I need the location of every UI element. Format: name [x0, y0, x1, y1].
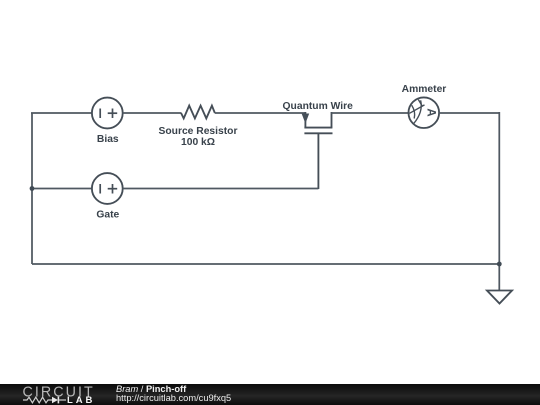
svg-text:Source Resistor: Source Resistor [159, 126, 238, 137]
footer bar [0, 384, 540, 405]
wire gate source branch [32, 188, 92, 190]
wire transistor drain to ammeter [332, 112, 409, 114]
wire right vertical bus [498, 112, 500, 264]
wire ground stem [498, 264, 500, 291]
svg-text:Ammeter: Ammeter [402, 84, 447, 95]
voltage source V1 Bias [92, 98, 123, 129]
svg-text:100 kΩ: 100 kΩ [181, 137, 215, 148]
svg-text:Gate: Gate [96, 209, 119, 220]
svg-text:Bias: Bias [97, 134, 119, 145]
ammeter AM1 [409, 97, 440, 128]
ground symbol [487, 291, 512, 304]
wire bottom bus [32, 263, 499, 265]
wire Gate source to transistor gate [123, 188, 319, 190]
logo wire with resistor [23, 397, 52, 403]
wire ammeter to right bus [439, 112, 499, 114]
transistor Q1 Quantum Wire (MESFET) [302, 112, 333, 189]
voltage source V2 Gate [92, 173, 123, 204]
svg-text:A: A [424, 108, 436, 116]
footer url [116, 393, 231, 403]
svg-text:Quantum Wire: Quantum Wire [283, 101, 354, 112]
node junction left bus / gate branch [30, 186, 35, 191]
resistor R1 Source Resistor 100k [181, 106, 215, 119]
logo diode [52, 397, 58, 403]
footer title Bram / Pinch-off [116, 384, 186, 394]
node junction right bus / bottom bus [497, 262, 502, 267]
wire left vertical bus [31, 113, 33, 264]
wire resistor to transistor [215, 112, 306, 114]
wire Bias to resistor [123, 112, 182, 114]
wire top-left horizontal from bus to Bias [31, 112, 92, 114]
